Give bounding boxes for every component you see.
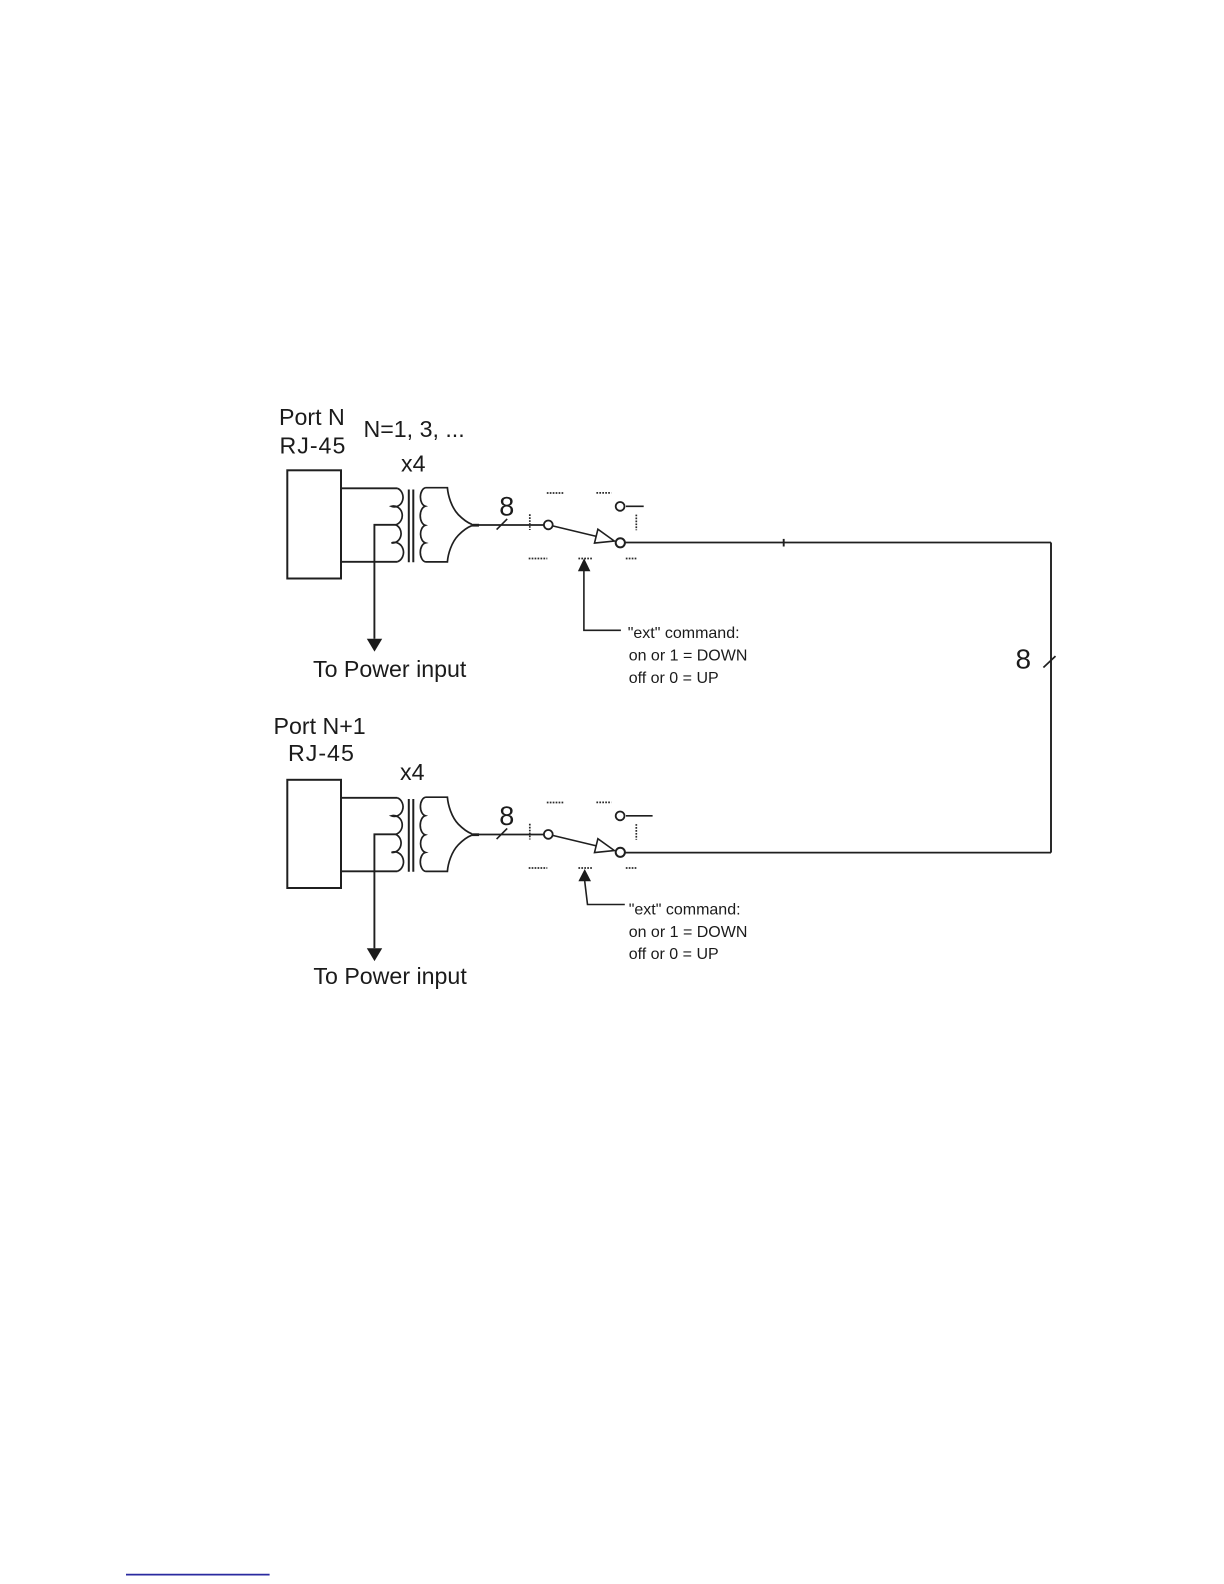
- wire up-contact stub (top): [626, 505, 644, 507]
- arrowhead to power input (top): [367, 639, 382, 652]
- relay boundary dashed fragments (top switch): [529, 493, 637, 559]
- svg-text:off or 0 = UP: off or 0 = UP: [629, 946, 719, 963]
- wire J2 pin top to T2 primary top: [341, 797, 397, 799]
- svg-text:RJ-45: RJ-45: [280, 433, 347, 459]
- transformer T2 primary winding: [392, 798, 404, 872]
- transformer T1 core: [408, 490, 410, 563]
- callout leader line (top): [584, 571, 621, 630]
- arrowhead to power input (bottom): [367, 948, 382, 961]
- wire J1 pin top to T1 primary top: [341, 487, 397, 489]
- svg-text:"ext" command:: "ext" command:: [629, 902, 741, 919]
- svg-text:RJ-45: RJ-45: [288, 740, 355, 766]
- svg-text:Port N+1: Port N+1: [274, 713, 366, 739]
- wire 8-wire bus between ports (vertical): [1050, 543, 1052, 853]
- svg-text:To Power input: To Power input: [313, 963, 467, 989]
- svg-text:8: 8: [499, 491, 514, 521]
- callout arrow to switch (top): [578, 558, 591, 571]
- transformer T2 secondary winding: [420, 797, 425, 871]
- bus slash (top): [497, 519, 508, 530]
- switch S2 pivot contact (bottom): [544, 830, 553, 839]
- switch S2 arm arrowhead (bottom): [595, 839, 615, 853]
- footer hyperlink underline: [126, 1574, 270, 1576]
- svg-text:off or 0 = UP: off or 0 = UP: [629, 670, 719, 687]
- wire bus x8 to switch (bottom): [472, 834, 544, 836]
- switch S2 up contact (bottom): [616, 812, 625, 821]
- switch S1 arm arrowhead (top): [595, 529, 615, 543]
- switch S1 arm (top): [553, 526, 597, 537]
- junction tick on wire (top): [783, 539, 785, 547]
- transformer T1 primary winding: [392, 488, 404, 562]
- bundle funnel (bottom): [426, 797, 472, 871]
- svg-text:8: 8: [499, 801, 514, 831]
- bundle funnel (top): [426, 488, 472, 562]
- wire J2 pin bottom to T2 primary bottom: [341, 870, 397, 872]
- switch S1 pivot contact (top): [544, 521, 553, 530]
- svg-text:8: 8: [1016, 643, 1032, 674]
- svg-text:N=1, 3, ...: N=1, 3, ...: [364, 416, 465, 442]
- svg-text:on or 1 = DOWN: on or 1 = DOWN: [629, 648, 748, 665]
- RJ-45 connector J2 (Port N+1): [287, 780, 341, 888]
- switch S1 up contact (top): [616, 502, 625, 511]
- svg-text:on or 1 = DOWN: on or 1 = DOWN: [629, 924, 748, 941]
- svg-text:Port N: Port N: [279, 404, 345, 430]
- callout arrow to switch (bottom): [578, 869, 591, 881]
- svg-text:x4: x4: [400, 759, 425, 785]
- wire J1 pin bottom to T1 primary bottom: [341, 561, 397, 563]
- transformer T2 core: [408, 799, 410, 872]
- wire switch output to bus (top): [625, 542, 1051, 544]
- switch S1 down contact (top): [616, 538, 625, 547]
- wire switch output to bus (bottom): [625, 852, 1051, 854]
- wire joint nub (top): [472, 524, 479, 527]
- wire up-contact stub (bottom): [626, 815, 653, 817]
- switch S2 down contact (bottom): [616, 848, 625, 857]
- callout leader line (bottom): [585, 881, 625, 905]
- svg-text:x4: x4: [401, 451, 426, 477]
- RJ-45 connector J1 (Port N): [287, 470, 341, 578]
- wire T1 center tap to power: [374, 525, 395, 639]
- svg-text:To Power input: To Power input: [313, 656, 467, 682]
- transformer T1 secondary winding: [420, 488, 425, 562]
- wire bus x8 to switch (top): [472, 524, 544, 526]
- wire T2 center tap to power: [374, 834, 395, 948]
- bus slash (bottom): [497, 828, 508, 839]
- switch S2 arm (bottom): [553, 835, 597, 846]
- bus slash (right): [1043, 656, 1055, 667]
- relay boundary dashed fragments (bottom switch): [529, 802, 637, 868]
- svg-text:"ext" command:: "ext" command:: [628, 625, 740, 642]
- wire joint nub (bottom): [472, 833, 479, 836]
